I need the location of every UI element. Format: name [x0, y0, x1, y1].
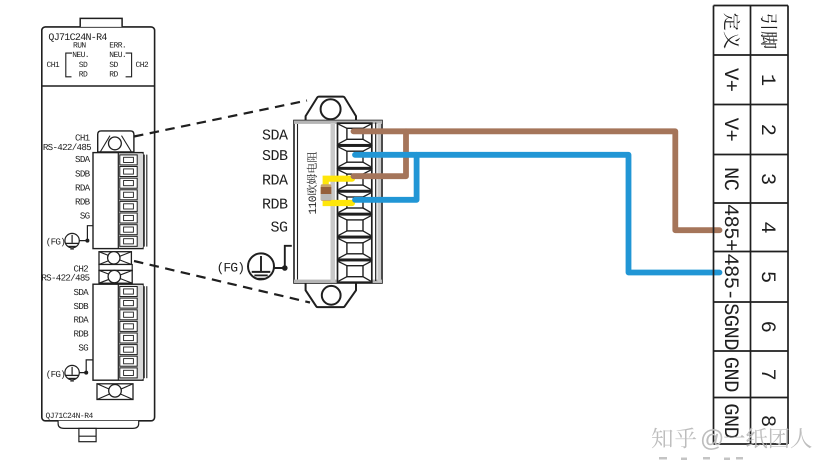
FG wire bracket (CH1)	[80, 226, 94, 241]
table header 引脚	[761, 14, 777, 29]
terminal strip of enlarged connector	[331, 123, 336, 282]
svg-text:(FG): (FG)	[46, 369, 65, 380]
enlarged connector bottom flange	[306, 284, 356, 308]
module bottom foot	[58, 421, 139, 429]
wire blue jumper SDB-RDB	[355, 155, 417, 200]
svg-text:1: 1	[755, 74, 778, 86]
svg-text:2: 2	[755, 124, 778, 136]
svg-text:NEU.: NEU.	[109, 51, 126, 60]
svg-text:SD: SD	[79, 61, 88, 70]
svg-text:(FG): (FG)	[46, 237, 65, 248]
svg-text:CH2: CH2	[136, 61, 149, 70]
terminal 2 of enlarged connector	[338, 146, 372, 168]
svg-text:RD: RD	[79, 71, 88, 80]
terminal 5 of enlarged connector	[338, 215, 372, 237]
bracket CH1 group	[66, 53, 72, 77]
svg-text:NC: NC	[718, 167, 741, 191]
dashed enlargement line (bottom)	[134, 261, 310, 303]
svg-text:@: @	[700, 426, 724, 453]
svg-text:V+: V+	[718, 68, 741, 92]
enlarged connector body	[294, 121, 382, 284]
svg-text:RDB: RDB	[75, 196, 91, 207]
svg-text:SDA: SDA	[74, 287, 90, 298]
svg-text:RDA: RDA	[75, 182, 91, 193]
svg-text:SDB: SDB	[74, 301, 90, 312]
wire brown SDA to 485+	[354, 131, 720, 230]
svg-text:QJ71C24N-R4: QJ71C24N-R4	[46, 412, 94, 421]
svg-text:SDA: SDA	[262, 128, 288, 145]
svg-text:3: 3	[755, 173, 778, 185]
terminal 7 of enlarged connector	[338, 261, 372, 283]
module QJ71C24N-R4 outline	[42, 27, 155, 421]
module panel divider line	[42, 85, 155, 87]
svg-text:GND: GND	[718, 357, 741, 392]
resistor R body	[321, 184, 332, 201]
svg-text:SG: SG	[78, 342, 88, 353]
terminal 3 of enlarged connector	[338, 169, 372, 191]
svg-text:RD: RD	[109, 71, 118, 80]
svg-text:CH1: CH1	[47, 61, 60, 70]
bracket CH2 group	[126, 53, 132, 77]
svg-text:6: 6	[755, 321, 778, 333]
svg-text:RS-422/485: RS-422/485	[43, 142, 91, 153]
CH2 connector top flange	[99, 270, 132, 283]
svg-text:ERR.: ERR.	[109, 42, 126, 51]
table header 定义	[724, 13, 741, 30]
svg-text:5: 5	[755, 271, 778, 283]
FG wire bracket (CH2)	[80, 360, 94, 373]
enlarged connector top flange	[306, 97, 356, 121]
ground symbol FG (CH2)	[65, 365, 79, 379]
svg-text:RDB: RDB	[74, 329, 90, 340]
CH1 connector bottom flange	[99, 252, 131, 265]
svg-text:4: 4	[755, 221, 778, 233]
svg-text:SDB: SDB	[75, 168, 91, 179]
svg-text:RDA: RDA	[74, 315, 90, 326]
svg-text:110: 110	[308, 195, 320, 214]
module top mounting tab	[80, 18, 122, 27]
terminal 4 of enlarged connector	[338, 192, 372, 214]
watermark fragment dots (bottom)	[659, 457, 743, 460]
CH2 connector body with 8 terminals	[93, 284, 143, 380]
svg-text:SD: SD	[109, 61, 118, 70]
terminal 6 of enlarged connector	[338, 238, 372, 260]
CH1 connector top flange	[98, 131, 134, 152]
ground symbol FG (enlarged connector)	[248, 253, 274, 279]
svg-text:8: 8	[755, 415, 778, 427]
svg-text:RUN: RUN	[73, 42, 86, 51]
ground symbol FG (CH1)	[65, 233, 79, 247]
wire brown jumper SDA-RDA	[354, 131, 407, 176]
svg-text:485-: 485-	[718, 253, 741, 300]
module bottom DIN tab	[79, 428, 96, 441]
CH1 connector body with 8 terminals	[93, 153, 143, 249]
wire blue SDB to 485-	[355, 155, 720, 273]
svg-text:SDB: SDB	[262, 148, 288, 165]
svg-text:485+: 485+	[718, 204, 741, 251]
CH2 connector bottom flange	[97, 384, 133, 400]
svg-text:V+: V+	[718, 118, 741, 142]
svg-text:7: 7	[755, 368, 778, 380]
svg-text:SG: SG	[270, 219, 288, 236]
svg-text:(FG): (FG)	[217, 261, 245, 276]
spacer bar between CH1 and CH2 connectors	[99, 265, 132, 271]
svg-text:SGND: SGND	[718, 303, 741, 350]
svg-text:NEU.: NEU.	[72, 51, 89, 60]
svg-text:SG: SG	[80, 211, 90, 222]
svg-text:RS-422/485: RS-422/485	[41, 273, 89, 284]
watermark 知乎 @一纸团人	[652, 428, 673, 449]
dashed enlargement line (top)	[134, 101, 307, 137]
resistor R (110 ohm termination) leads	[326, 179, 352, 203]
FG wire bracket (enlarged connector)	[274, 246, 292, 268]
svg-text:RDA: RDA	[262, 172, 288, 189]
terminal 1 of enlarged connector	[338, 123, 372, 145]
svg-text:SDA: SDA	[75, 154, 91, 165]
terminal table grid	[714, 6, 789, 445]
svg-text:RDB: RDB	[262, 196, 288, 213]
